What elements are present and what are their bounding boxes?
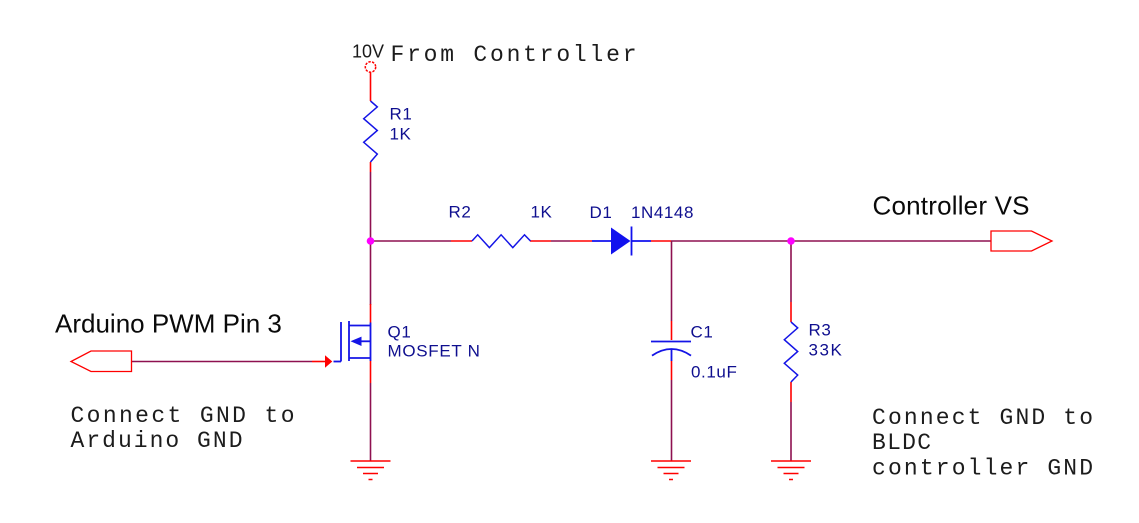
- svg-text:Q1: Q1: [388, 323, 412, 342]
- svg-text:Arduino GND: Arduino GND: [71, 428, 243, 454]
- svg-text:Arduino PWM Pin 3: Arduino PWM Pin 3: [55, 309, 282, 339]
- svg-text:1N4148: 1N4148: [631, 203, 694, 222]
- svg-text:D1: D1: [590, 203, 613, 222]
- svg-text:Controller VS: Controller VS: [873, 191, 1030, 221]
- svg-text:BLDC: BLDC: [872, 430, 931, 456]
- svg-text:10V: 10V: [352, 42, 384, 62]
- svg-text:0.1uF: 0.1uF: [691, 363, 737, 382]
- svg-text:R3: R3: [809, 321, 832, 340]
- svg-text:33K: 33K: [809, 341, 843, 360]
- svg-text:R2: R2: [449, 203, 472, 222]
- svg-text:C1: C1: [691, 323, 714, 342]
- svg-text:From Controller: From Controller: [391, 42, 637, 68]
- svg-text:1K: 1K: [531, 203, 553, 222]
- svg-text:MOSFET N: MOSFET N: [388, 342, 481, 361]
- svg-text:R1: R1: [390, 105, 413, 124]
- svg-text:1K: 1K: [390, 125, 412, 144]
